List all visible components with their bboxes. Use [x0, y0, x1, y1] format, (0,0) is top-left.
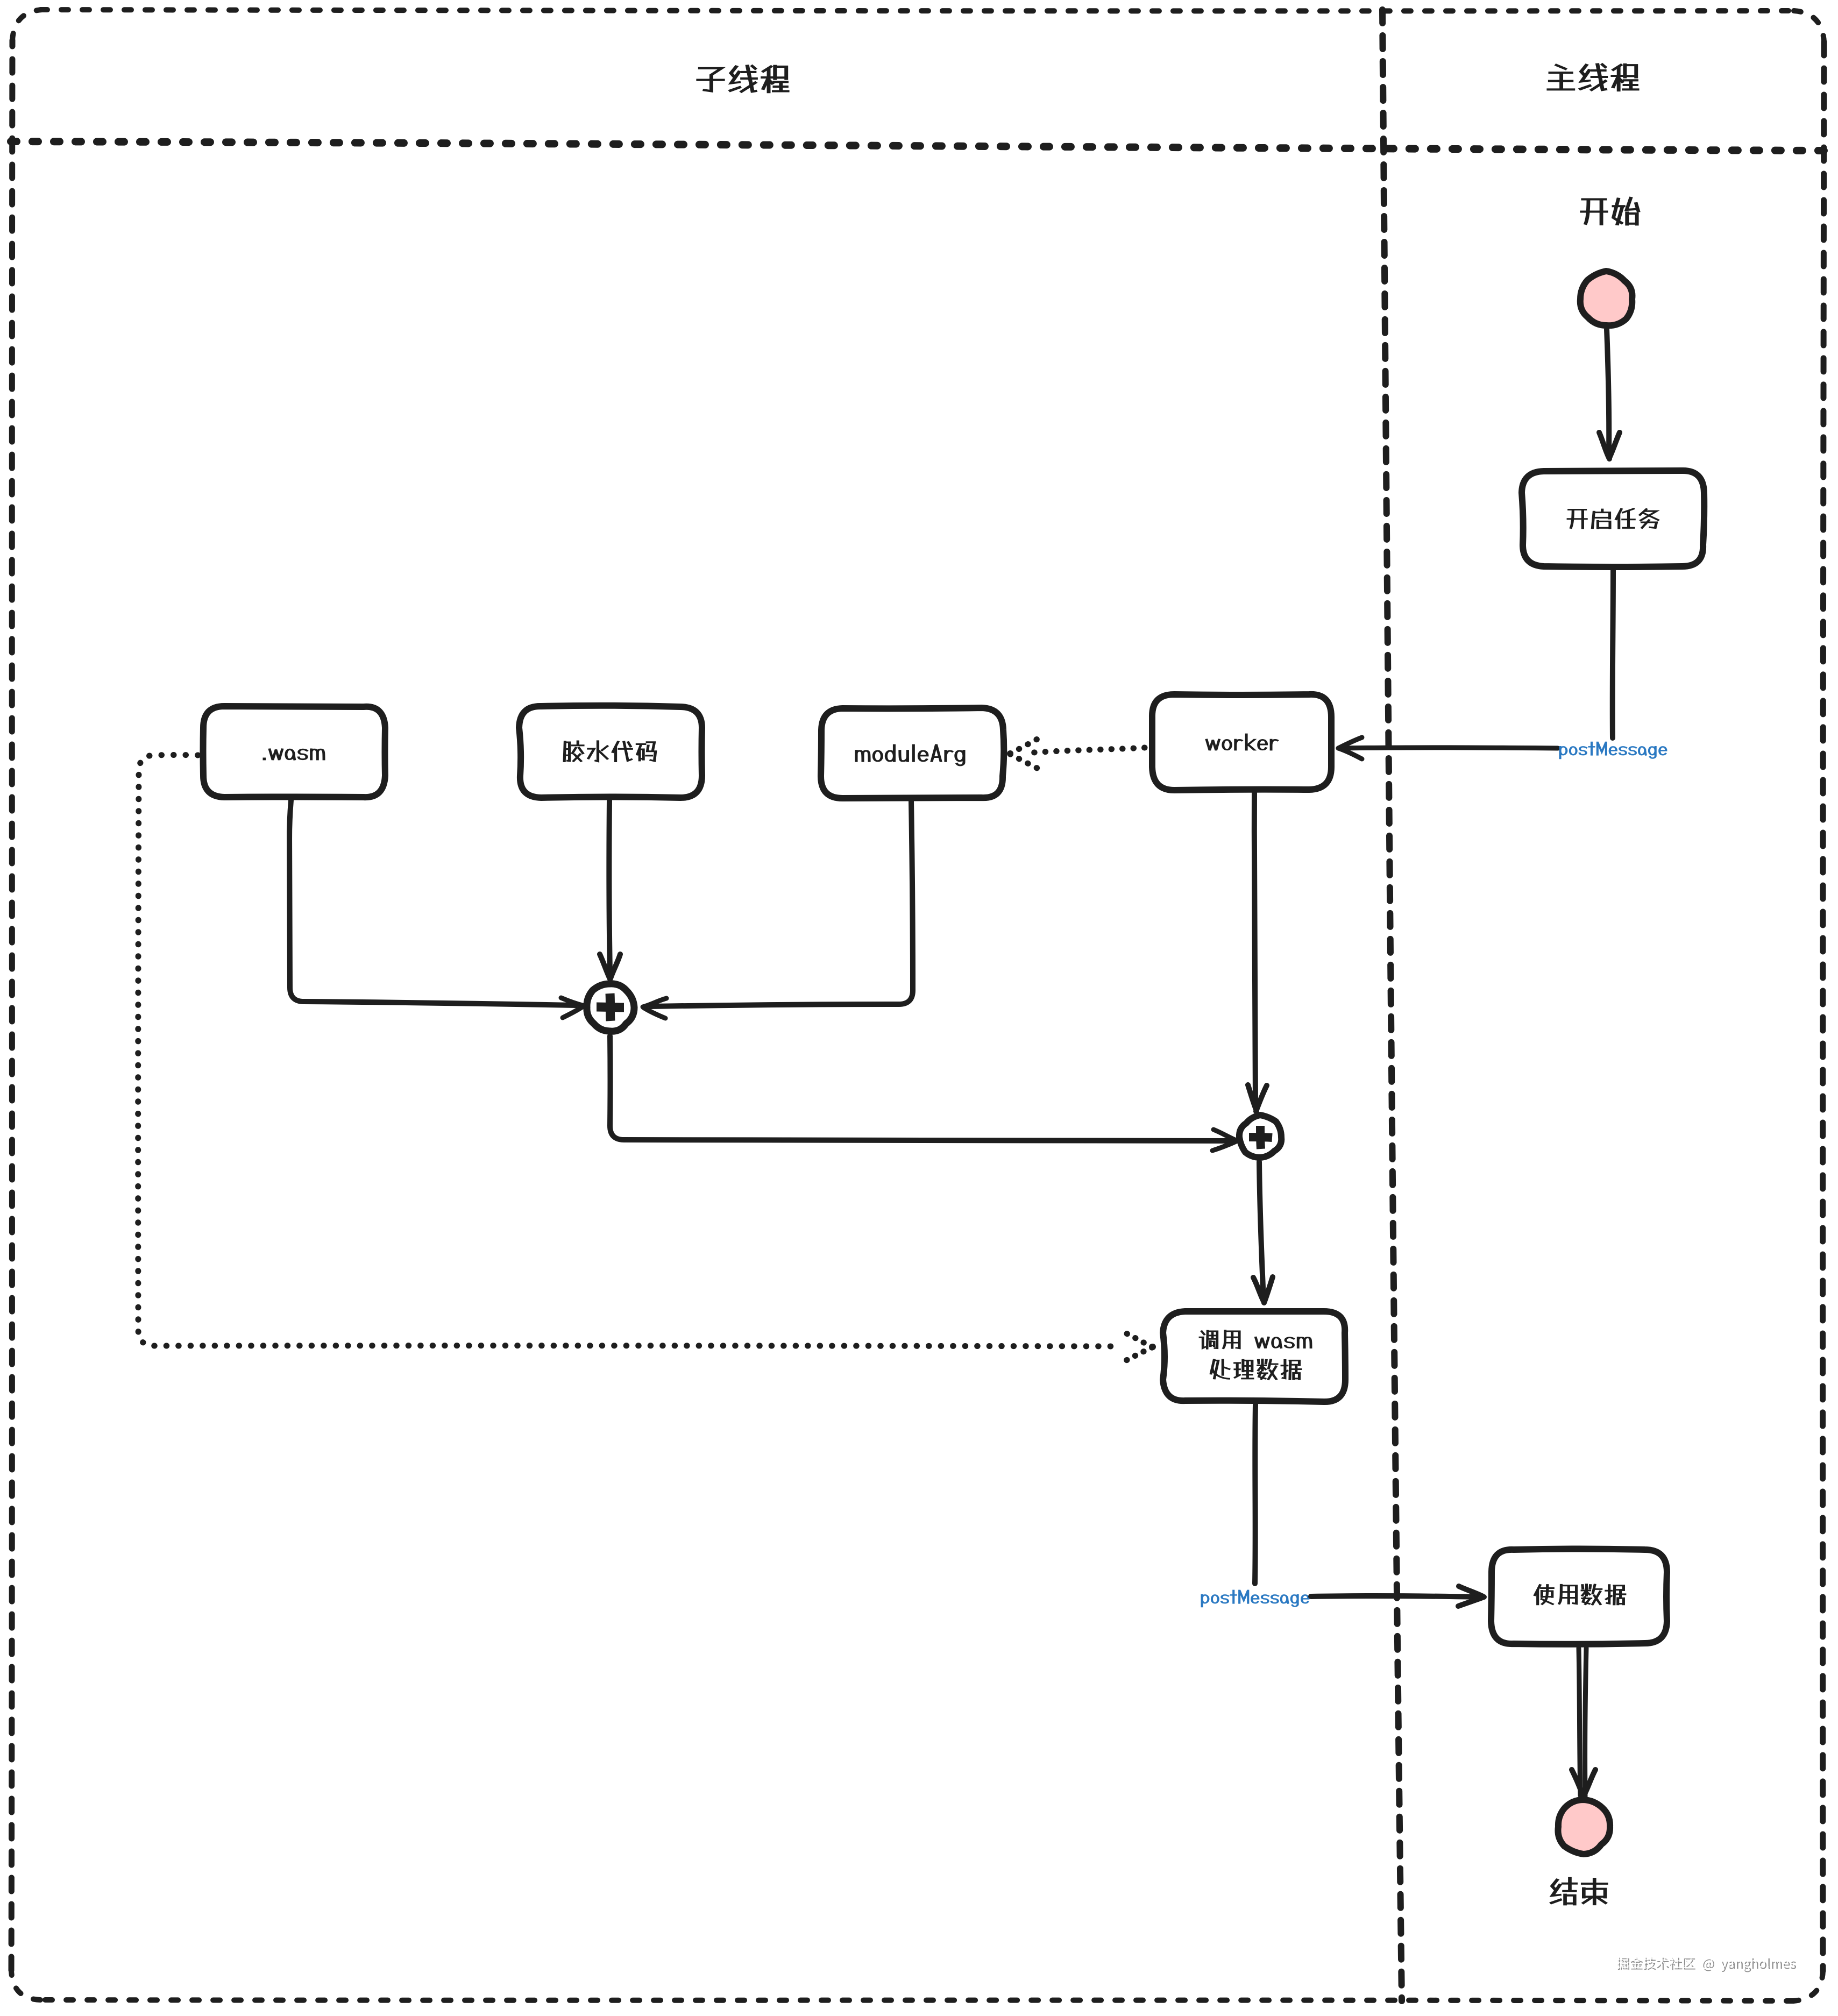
wire postMessage to worker — [1340, 748, 1558, 748]
label postMessage (top) — [1559, 742, 1667, 759]
box .wasm — [203, 706, 386, 797]
lane title 主线程 — [1547, 63, 1639, 91]
arrow 使用数据 to end (double stroke) — [1579, 1648, 1580, 1795]
wire merge1 to merge2 — [610, 1036, 1232, 1141]
label 开始 — [1580, 197, 1640, 225]
arrow merge2 to 调用 box — [1259, 1162, 1264, 1299]
wire 开启任务 down — [1613, 570, 1613, 738]
lane separator vertical (dashed) — [1382, 10, 1402, 2001]
container right border — [1823, 42, 1824, 1971]
box worker — [1152, 694, 1331, 790]
lane header separator (dashed) — [11, 141, 1824, 151]
container left border — [11, 40, 12, 1970]
wire 调用 box down — [1255, 1404, 1255, 1584]
watermark 掘金技术社区 @ yangholmes — [1617, 1958, 1796, 1972]
merge node 2 (plus circle) — [1239, 1115, 1281, 1158]
lane title 子线程 — [697, 65, 789, 93]
label 结束 — [1550, 1877, 1608, 1905]
merge node 1 (plus circle) — [587, 984, 634, 1031]
box 胶水代码 — [519, 706, 702, 798]
end state circle — [1558, 1800, 1610, 1854]
box 开启任务 — [1522, 471, 1704, 567]
wire .wasm to merge1 — [289, 800, 291, 839]
label postMessage (bottom) — [1201, 1590, 1309, 1607]
box 使用数据 — [1491, 1549, 1667, 1644]
arrow start to 开启任务 — [1607, 329, 1609, 456]
box moduleArg — [821, 708, 1004, 798]
dotted wire .wasm to 调用 box — [138, 755, 1122, 1347]
box 调用 wasm 处理数据 — [1163, 1311, 1345, 1402]
arrow postMessage to 使用数据 — [1311, 1596, 1480, 1597]
container bottom border — [40, 2000, 1793, 2001]
start state circle — [1580, 271, 1633, 325]
arrow worker to merge2 — [1254, 793, 1255, 1107]
dotted arrow worker to moduleArg — [1034, 748, 1145, 753]
wire moduleArg to merge1 — [651, 801, 913, 1006]
outer swimlane container (dashed) — [40, 10, 1794, 11]
arrow 胶水代码 to merge1 — [609, 800, 610, 972]
